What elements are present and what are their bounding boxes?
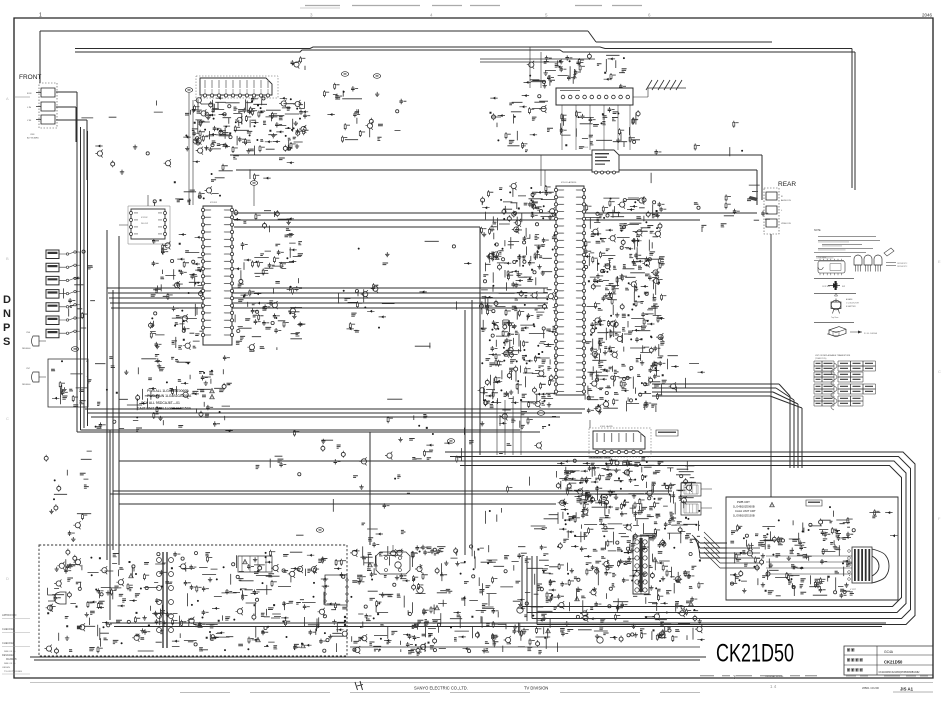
svg-text:IC601 LA4285: IC601 LA4285 xyxy=(600,425,614,428)
svg-text:P: P xyxy=(3,322,10,334)
svg-text:(TRANSITION): (TRANSITION) xyxy=(815,357,827,360)
svg-text:3: 3 xyxy=(733,675,736,681)
svg-text:CXJ2 KW: CXJ2 KW xyxy=(822,286,830,288)
svg-text:CA3T UNIT MAIN 1LG9B10Z0150A: CA3T UNIT MAIN 1LG9B10Z0150A xyxy=(137,407,192,411)
svg-text:2SC2482 KTC: 2SC2482 KTC xyxy=(897,263,908,265)
svg-text:PWB CRT: PWB CRT xyxy=(737,500,750,504)
svg-text:CHECKED: CHECKED xyxy=(2,627,15,631)
svg-text:FRONT: FRONT xyxy=(19,74,41,81)
svg-text:APPROVED: APPROVED xyxy=(2,613,17,617)
svg-text:2SC2062 KTC: 2SC2062 KTC xyxy=(897,266,908,268)
svg-text:A: A xyxy=(6,96,9,101)
svg-text:L IN: L IN xyxy=(27,107,31,109)
svg-text:R.I. EL CHIDRA: R.I. EL CHIDRA xyxy=(864,332,878,335)
svg-text:DESIGNED: DESIGNED xyxy=(2,654,15,657)
svg-text:R IN: R IN xyxy=(27,93,32,95)
svg-text:DRE OF 05: DRE OF 05 xyxy=(4,663,16,665)
svg-text:AUDIO IN: AUDIO IN xyxy=(781,199,791,202)
svg-text:TVLCD/TVF10905: TVLCD/TVF10905 xyxy=(4,671,23,673)
svg-text:A/V BOARD: A/V BOARD xyxy=(27,137,39,140)
svg-text:CN8: CN8 xyxy=(30,134,35,136)
svg-text:NOTE: NOTE xyxy=(814,229,821,232)
svg-text:B: B xyxy=(6,256,9,261)
svg-text:TV DIVISION: TV DIVISION xyxy=(524,686,548,691)
svg-text:CAJA UNIT CRT: CAJA UNIT CRT xyxy=(735,509,756,513)
svg-text:KW: KW xyxy=(842,286,845,288)
svg-text:1 4: 1 4 xyxy=(770,684,777,689)
svg-text:A BASE: A BASE xyxy=(846,298,853,301)
svg-text:JIS A1: JIS A1 xyxy=(900,687,914,692)
svg-text:DRE OF 05: DRE OF 05 xyxy=(4,651,16,653)
svg-text:E EMITTER: E EMITTER xyxy=(846,306,856,308)
svg-text:WB01 CK200: WB01 CK200 xyxy=(862,686,879,690)
svg-text:IC1201: IC1201 xyxy=(210,202,218,204)
svg-text:ORIGIN: ORIGIN xyxy=(2,667,10,669)
svg-text:IC101 LA76810: IC101 LA76810 xyxy=(561,181,577,184)
svg-text:CK21D50: CK21D50 xyxy=(884,660,903,665)
svg-text:PWB MAIN 1LG4B10Z0006A: PWB MAIN 1LG4B10Z0006A xyxy=(147,394,192,398)
svg-text:C: C xyxy=(938,369,941,374)
svg-text:LIST OF REPLACEABLE TRANSISTOR: LIST OF REPLACEABLE TRANSISTORS xyxy=(815,354,851,357)
svg-text:E: E xyxy=(938,259,941,264)
svg-text:CHECKED: CHECKED xyxy=(2,641,15,645)
svg-text:D: D xyxy=(3,294,11,306)
svg-text:S: S xyxy=(3,336,10,348)
svg-text:MA3FE05: MA3FE05 xyxy=(6,658,17,661)
svg-text:1LG4B10Z0060B: 1LG4B10Z0060B xyxy=(733,505,755,509)
svg-text:CK21DW8/CK21D50(PN85/D80B/VA82: CK21DW8/CK21D50(PN85/D80B/VA82 xyxy=(879,671,921,674)
svg-text:N: N xyxy=(3,308,11,320)
svg-text:REAR: REAR xyxy=(778,181,796,188)
svg-text:CK21D50: CK21D50 xyxy=(716,640,794,668)
svg-text:1LG9B10Z0150B: 1LG9B10Z0150B xyxy=(733,514,755,518)
svg-text:SCH ALL 9SDCAJ6T—01: SCH ALL 9SDCAJ6T—01 xyxy=(141,401,180,405)
svg-text:Top View: Top View xyxy=(831,317,839,319)
svg-text:GC4A: GC4A xyxy=(884,650,894,654)
svg-text:D: D xyxy=(6,576,9,581)
svg-text:PATH8000: PATH8000 xyxy=(22,383,31,386)
svg-text:TOP VIEW: TOP VIEW xyxy=(818,257,827,259)
svg-text:ORIGINAL MODEL: ORIGINAL MODEL xyxy=(765,675,785,678)
svg-text:SANYO ELECTRIC CO.,LTD.: SANYO ELECTRIC CO.,LTD. xyxy=(414,686,468,691)
svg-text:PATH8000: PATH8000 xyxy=(22,347,31,350)
svg-text:V CRT: V CRT xyxy=(850,589,857,591)
svg-text:1: 1 xyxy=(39,13,42,19)
svg-text:2046: 2046 xyxy=(922,13,933,18)
svg-text:V IN: V IN xyxy=(27,120,32,122)
svg-text:VIDEO IN: VIDEO IN xyxy=(781,223,791,225)
svg-text:PWB ALL 1LG4B10Z0060B: PWB ALL 1LG4B10Z0060B xyxy=(147,389,189,393)
svg-text:C: C xyxy=(6,416,9,421)
svg-text:X1601: X1601 xyxy=(583,147,588,149)
svg-text:24LC02: 24LC02 xyxy=(141,223,149,225)
svg-text:C COLLECTOR: C COLLECTOR xyxy=(846,303,859,305)
svg-text:IC1202: IC1202 xyxy=(141,217,148,219)
